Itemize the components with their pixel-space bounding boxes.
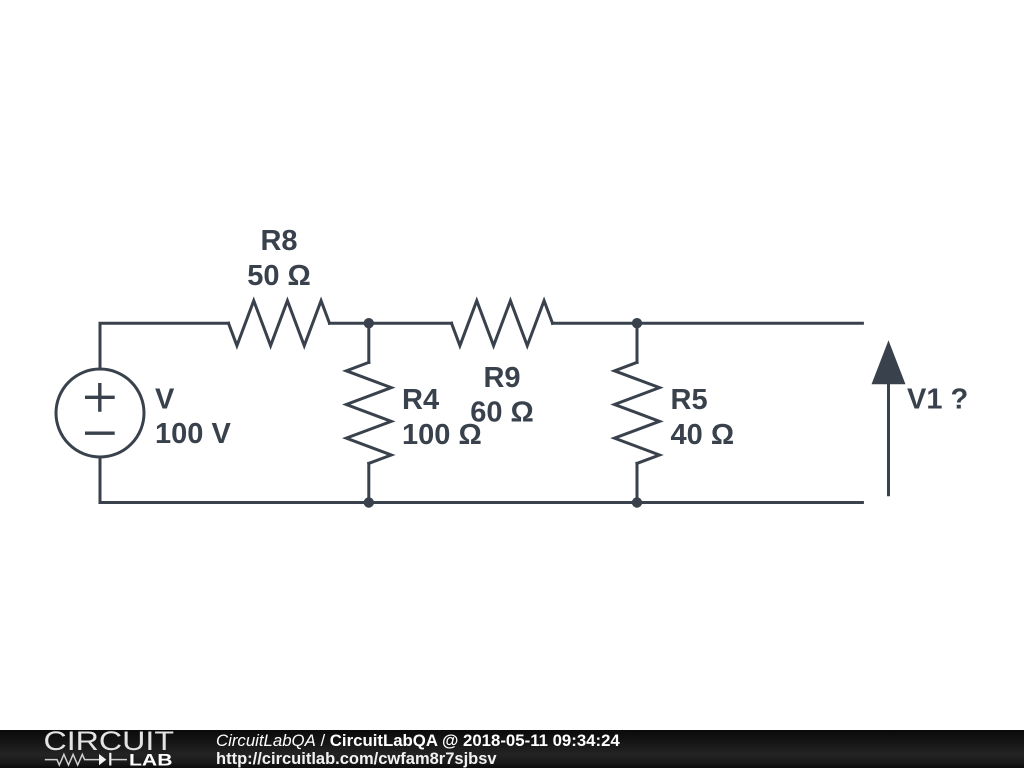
wire R5 top lead bbox=[636, 323, 639, 362]
logo resistor-diode glyph bbox=[45, 753, 127, 766]
wire R4 top lead bbox=[367, 323, 370, 362]
svg-text:CircuitLabQA / CircuitLabQA @: CircuitLabQA / CircuitLabQA @ 2018-05-11… bbox=[216, 731, 620, 750]
svg-text:50 Ω: 50 Ω bbox=[247, 260, 311, 292]
node D junction dot (R5 bottom) bbox=[632, 497, 642, 507]
node B junction dot (R9/R5 top) bbox=[632, 318, 642, 328]
voltage source plus sign bbox=[85, 383, 115, 412]
voltage probe V1 arrow stem bbox=[887, 384, 890, 495]
node C junction dot (R4 bottom) bbox=[364, 497, 374, 507]
resistor R8 bbox=[229, 301, 330, 346]
resistor R5 bbox=[615, 362, 660, 463]
footer bar background bbox=[0, 730, 1024, 768]
voltage source minus sign bbox=[85, 432, 115, 435]
wire R4 bottom lead bbox=[367, 463, 370, 502]
svg-text:V: V bbox=[155, 384, 175, 416]
svg-text:R9: R9 bbox=[483, 362, 520, 394]
svg-text:100 V: 100 V bbox=[155, 418, 231, 450]
logo diode triangle bbox=[99, 754, 106, 765]
wire R8 to R9 bbox=[330, 322, 452, 325]
svg-text:http://circuitlab.com/cwfam8r7: http://circuitlab.com/cwfam8r7sjbsv bbox=[216, 750, 497, 768]
svg-text:V1 ?: V1 ? bbox=[907, 383, 968, 415]
wire R9 to right end bbox=[553, 322, 863, 325]
svg-text:R4: R4 bbox=[402, 384, 439, 416]
svg-text:R8: R8 bbox=[260, 225, 297, 257]
wire bottom rail bbox=[100, 457, 862, 503]
wire top-left from source to R8 bbox=[100, 323, 229, 369]
svg-text:R5: R5 bbox=[671, 384, 708, 416]
svg-text:40 Ω: 40 Ω bbox=[671, 419, 735, 451]
resistor R4 bbox=[346, 362, 391, 463]
wire R5 bottom lead bbox=[636, 463, 639, 502]
voltage source V circle bbox=[56, 369, 144, 457]
resistor R9 bbox=[452, 301, 553, 346]
svg-text:100 Ω: 100 Ω bbox=[402, 419, 482, 451]
svg-text:LAB: LAB bbox=[129, 750, 173, 768]
voltage probe V1 arrowhead bbox=[872, 340, 906, 384]
node A junction dot (R8/R9/R4 top) bbox=[364, 318, 374, 328]
